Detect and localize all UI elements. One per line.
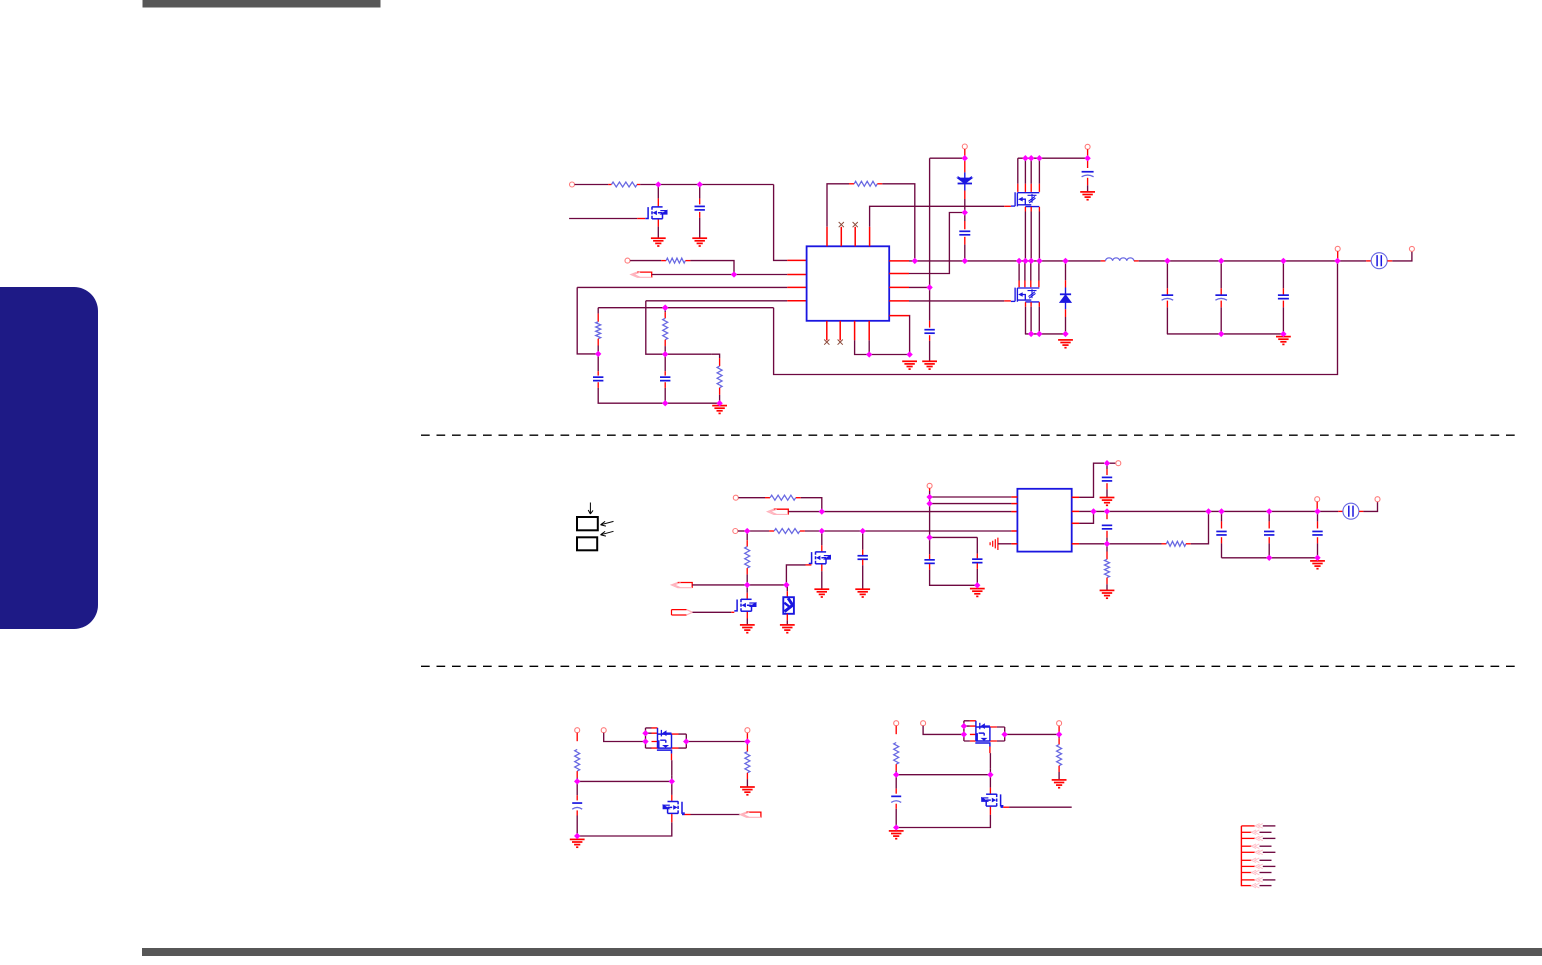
- resistor R11: [1105, 559, 1110, 577]
- transistor Q7: [668, 801, 685, 814]
- wire C4 to ground: [929, 341, 931, 361]
- chassis ground symbol: [990, 538, 998, 550]
- junction bus b: [1028, 258, 1034, 264]
- junction Cout3 gnd: [1280, 331, 1286, 337]
- lead F1 right: [1387, 260, 1392, 262]
- capacitor C14: [1216, 531, 1226, 535]
- net bundle connector J1: [1241, 824, 1275, 888]
- junction bus c: [1036, 258, 1042, 264]
- wire C14 bottom: [1221, 543, 1223, 557]
- capacitor C9: [858, 556, 868, 560]
- junction Cout1 top: [1164, 258, 1170, 264]
- pin U1 R5: [889, 315, 909, 317]
- junction C5 bus: [962, 258, 968, 264]
- wire junction to C2: [597, 354, 599, 371]
- wire D2 to rail: [1065, 317, 1067, 334]
- lead L1 left: [1101, 260, 1106, 262]
- ground below Q4: [814, 589, 829, 597]
- junction BL 3 node: [744, 738, 750, 744]
- terminal VOUT: [1409, 246, 1414, 251]
- wire into BM node: [989, 769, 991, 775]
- pin U1 L1: [787, 259, 806, 261]
- wire R1 to corner: [640, 184, 773, 186]
- wire Q3 source down: [1025, 307, 1027, 334]
- junction U1 ground: [906, 351, 912, 357]
- lead C5 bottom: [964, 237, 966, 245]
- wire F2 to terminal: [1363, 502, 1377, 512]
- wire C15 bottom: [1268, 543, 1270, 557]
- wire Q3 drain: [1024, 261, 1026, 281]
- junction U2 pin1 node: [926, 494, 932, 500]
- wire to C1: [699, 185, 701, 199]
- junction Q8 a: [961, 723, 967, 729]
- wire Q6 gate to Q7: [671, 760, 673, 776]
- resistor RBL2: [745, 752, 750, 773]
- wire Q8 gate to Q9: [989, 753, 991, 769]
- terminal BL 1: [575, 728, 580, 733]
- lead Q6 gate red: [671, 754, 673, 761]
- terminal VIN A: [962, 144, 967, 149]
- wire to U2 pin1: [930, 496, 1012, 498]
- lead R4 bottom: [597, 339, 599, 346]
- junction Q6 b: [642, 738, 648, 744]
- lead C12 top: [1106, 469, 1108, 475]
- lead Q3 gate: [1004, 300, 1011, 302]
- lead R8 right: [800, 530, 805, 532]
- lead C16 top: [1317, 521, 1319, 528]
- resistor RBM2: [1057, 745, 1062, 766]
- lead Q5 gate: [731, 611, 734, 613]
- wire R8 to U2 pin4: [805, 530, 1012, 532]
- ground BM 3: [1052, 780, 1067, 788]
- transistor Q1: [645, 206, 662, 219]
- wire VIN B rail: [1018, 157, 1088, 159]
- pin U2 R4: [1072, 543, 1079, 545]
- lead C5 top: [964, 221, 966, 229]
- lead R1 right: [637, 184, 640, 186]
- wire U1 top pin to R3: [827, 184, 849, 227]
- feedthrough F2: [1343, 503, 1359, 519]
- pin U1 R1: [889, 260, 909, 262]
- capacitor C11: [972, 559, 982, 563]
- junction D2 rail: [1062, 331, 1068, 337]
- lead R5 top: [664, 312, 666, 318]
- wire U2 R3 loop: [1079, 511, 1093, 523]
- junction Q2 drain4: [1036, 155, 1042, 161]
- resistor R5: [663, 318, 668, 339]
- capacitor C1: [695, 206, 705, 210]
- lead Cout2 top: [1220, 288, 1222, 295]
- lead R1 left: [608, 184, 611, 186]
- junction Q4 drain node: [819, 528, 825, 534]
- junction R4/C2 node: [595, 351, 601, 357]
- transistor Q6 P-FET: [646, 728, 687, 748]
- lead F2 left: [1338, 510, 1342, 512]
- feedthrough F1: [1371, 253, 1387, 269]
- wire R11 bottom: [1106, 584, 1108, 590]
- dashed section divider lower: [421, 665, 1521, 667]
- wire BL source return: [577, 822, 672, 836]
- capacitor Cout3: [1278, 295, 1289, 299]
- resistor RBL: [575, 749, 580, 771]
- net arrow ACOK: [631, 272, 652, 278]
- charger controller U1: [807, 246, 890, 320]
- wire R4 to junction: [597, 346, 599, 354]
- lead R7 left: [765, 497, 770, 499]
- diode D2: [1060, 294, 1071, 302]
- lead Q8 gate red: [989, 747, 991, 754]
- wire enable to U2 pin3: [822, 511, 1012, 513]
- lead RBL top: [576, 733, 578, 742]
- lead C14 top: [1221, 521, 1223, 528]
- wire Q2 drain2: [1024, 158, 1026, 184]
- lead C9 top: [862, 550, 864, 556]
- wire C10 loop top: [930, 536, 978, 538]
- wire U1 R4 to Q3 gate: [909, 300, 1004, 302]
- wire Q7 drain: [671, 781, 673, 795]
- wire mid input A: [738, 497, 765, 499]
- wire C16 bottom: [1317, 543, 1319, 557]
- wire CBM bottom: [895, 809, 897, 828]
- junction BM gate node: [893, 772, 899, 778]
- lead TVS top: [786, 591, 788, 597]
- wire BM 2 to Q8: [923, 726, 964, 735]
- wire C12 to ground: [1106, 489, 1108, 497]
- wire Cout3 top: [1282, 261, 1284, 288]
- lead sense stub: [1316, 502, 1318, 510]
- lead Q1 gate: [637, 218, 645, 220]
- resistor R4: [596, 322, 601, 339]
- lead L1 right: [1134, 260, 1139, 262]
- lead D2 blue top: [1065, 288, 1067, 295]
- wire Q2 source to bus: [1024, 212, 1026, 261]
- ground mid caps: [970, 589, 985, 597]
- wire gate node to TVS node: [747, 584, 786, 586]
- wire output to F1: [1338, 260, 1367, 262]
- wire RBM2 bottom: [1058, 772, 1060, 780]
- transistor Q3 low-side: [1011, 288, 1039, 302]
- wire D2 top: [1065, 261, 1067, 280]
- wire R5 to junction: [664, 346, 666, 354]
- pin U2 R2: [1072, 510, 1079, 512]
- wire Q4 drain: [821, 531, 823, 545]
- lead Q2 drain4 red: [1038, 184, 1040, 192]
- lead D1 anode: [964, 158, 966, 172]
- wire U1 pin3 feedback: [577, 286, 787, 288]
- lead Cout1 top: [1166, 288, 1168, 295]
- wire Cout2 bottom: [1220, 307, 1222, 334]
- lead Q1 drain: [657, 198, 659, 206]
- wire C10 to ground node: [930, 570, 978, 586]
- wire arrow to gate node: [692, 584, 747, 586]
- ground below R11: [1100, 590, 1115, 598]
- lead C9 bottom: [862, 559, 864, 565]
- lead D2 cathode: [1065, 280, 1067, 287]
- wire R2 to EN node: [690, 261, 734, 275]
- pin U1 L2: [787, 274, 806, 276]
- transistor Q2 high-side: [1011, 192, 1039, 206]
- junction EN node: [731, 271, 737, 277]
- capacitor C12: [1102, 477, 1112, 481]
- wire Q4 source to ground: [821, 571, 823, 589]
- wire Cout3 bottom: [1282, 307, 1284, 334]
- lead Q2 drain3 red: [1030, 184, 1032, 192]
- terminal BM 2: [921, 721, 926, 726]
- resistor R3: [854, 181, 877, 186]
- lead R4 top: [597, 314, 599, 322]
- wire Q2 drain4: [1038, 158, 1040, 184]
- wire Q2 drain3: [1030, 158, 1032, 184]
- lead C12 bottom: [1106, 483, 1108, 489]
- pin U1 B4: [868, 321, 870, 341]
- junction source rail a: [1028, 331, 1034, 337]
- transistor Q9: [986, 794, 1003, 807]
- lead CBM bottom: [895, 804, 897, 809]
- lead C11 top: [976, 554, 978, 559]
- junction gate drive node: [744, 582, 750, 588]
- lead Q3 source red: [1038, 302, 1040, 307]
- ground BL: [570, 839, 585, 847]
- wire U1 B4 down: [868, 340, 870, 354]
- lead Cout2 bottom: [1220, 301, 1222, 308]
- junction R5 top: [662, 305, 668, 311]
- lead C6 bottom: [1087, 178, 1089, 186]
- wire to Q1 drain: [657, 185, 659, 199]
- lead R10 right: [1186, 543, 1191, 545]
- no-connect X B1: [824, 340, 829, 345]
- capacitor Cout1: [1162, 295, 1174, 300]
- wire Q9 gate: [1009, 806, 1072, 808]
- lead CBL top: [576, 795, 578, 800]
- junction R10 output: [1205, 508, 1211, 514]
- ground mid output: [1310, 561, 1325, 569]
- wire Q7 gate: [691, 814, 741, 816]
- lead R5 bottom: [664, 340, 666, 346]
- lead C13 top: [1106, 511, 1108, 519]
- junction bus d: [1016, 258, 1022, 264]
- wire Q6 to BL 3: [686, 741, 747, 743]
- junction Q1 drain node: [655, 181, 661, 187]
- lead R2 right: [685, 260, 690, 262]
- ground below C12: [1100, 498, 1115, 506]
- lead Q5 drain: [746, 593, 748, 599]
- junction Q8 b: [961, 731, 967, 737]
- wire down to R4 node: [577, 287, 596, 354]
- pin U1 T1: [826, 227, 828, 247]
- pin U1 B3: [854, 321, 856, 341]
- wire Q3 drain1: [1018, 261, 1020, 281]
- junction R2/R3: [1090, 508, 1096, 514]
- resistor R6: [717, 366, 722, 388]
- junction Q6 c: [683, 738, 689, 744]
- wire vcc vertical: [929, 158, 931, 321]
- lead F2 right: [1359, 510, 1363, 512]
- pin U2 R3: [1072, 522, 1079, 524]
- wire Cout1 bottom: [1166, 307, 1168, 334]
- lead C4 bottom: [929, 335, 931, 341]
- ground below C9: [855, 589, 870, 597]
- lead Q4 source: [821, 565, 823, 572]
- junction BM fet column: [987, 772, 993, 778]
- wire C12 top: [1106, 463, 1108, 469]
- junction boot node: [962, 209, 968, 215]
- wire Q2 drain1: [1017, 158, 1019, 184]
- terminal VDDP: [1116, 461, 1121, 466]
- transistor Q5: [734, 599, 751, 612]
- wire C3 to rail: [664, 388, 666, 403]
- junction TVS node: [783, 582, 789, 588]
- junction VIN node: [962, 155, 968, 161]
- ground BM: [889, 831, 904, 839]
- wire R9 top: [746, 531, 748, 540]
- lead D1 cathode: [964, 191, 966, 200]
- wire C15 top: [1268, 511, 1270, 521]
- inductor L1: [1106, 258, 1134, 261]
- wire to R8: [747, 530, 769, 532]
- lead Q3 drain red: [1030, 281, 1032, 288]
- terminal middle input A: [733, 495, 738, 500]
- lead R8 left: [769, 530, 774, 532]
- lead Q5 source: [746, 612, 748, 619]
- junction output rail: [1218, 331, 1224, 337]
- junction Q6 a: [642, 730, 648, 736]
- bottom footer bar: [142, 948, 1542, 956]
- junction BM 3 node: [1056, 731, 1062, 737]
- pin U1 T3 (NC): [854, 227, 856, 247]
- net arrow gate drive: [671, 583, 692, 589]
- junction R5/C3 node: [662, 351, 668, 357]
- ground below Q5: [740, 625, 755, 633]
- pin U1 B1 (NC): [826, 321, 828, 341]
- lead VIN B stub: [1087, 149, 1089, 158]
- wire Q4 gate loop: [786, 565, 805, 585]
- lead C2 top: [597, 371, 599, 375]
- wire C11 bottom: [976, 569, 978, 585]
- lead Q7 drain: [671, 795, 673, 801]
- TVS diode D3: [783, 597, 794, 614]
- junction BL gate node: [574, 778, 580, 784]
- wire into BL node: [671, 776, 673, 782]
- wire boot to C5: [964, 213, 966, 222]
- lead RBM2 top: [1058, 738, 1060, 744]
- wire R4 top: [597, 308, 599, 314]
- lead Cout1 bottom: [1166, 301, 1168, 308]
- lead CBL bottom: [576, 810, 578, 815]
- pin U2 L1: [1011, 496, 1017, 498]
- wire vcc top horizontal: [930, 157, 963, 159]
- lead Q7 gate red: [685, 814, 691, 816]
- junction Cout2 top: [1218, 258, 1224, 264]
- wire Q3 drain: [1038, 261, 1040, 281]
- lead Q2 drain2 red: [1024, 184, 1026, 192]
- lead CBM top: [895, 789, 897, 794]
- lead C16 bottom: [1317, 537, 1319, 543]
- lead C15 top: [1268, 521, 1270, 528]
- lead mid VCC stub: [929, 488, 931, 491]
- pin U1 B2 (NC): [839, 321, 841, 341]
- lead R10 left: [1162, 543, 1167, 545]
- wire U1 pin4: [646, 300, 788, 302]
- junction C10 loop: [926, 534, 932, 540]
- wire R10 up to output: [1191, 511, 1209, 543]
- resistor R10: [1166, 541, 1186, 546]
- no-connect X T3: [853, 222, 858, 227]
- pin U1 T2 (NC): [840, 227, 842, 247]
- lead Q9 gate red: [1003, 806, 1009, 808]
- lead R9 top: [746, 540, 748, 546]
- pin U1 R3pin: [889, 286, 909, 288]
- capacitor CBL: [572, 803, 582, 809]
- lead D1 blue top: [964, 172, 966, 178]
- capacitor C10: [924, 560, 934, 564]
- capacitor C16: [1312, 531, 1322, 535]
- junction BL fet column: [669, 778, 675, 784]
- wire U1 R3 to Cboot: [909, 286, 930, 288]
- connector block symbol: [577, 517, 598, 550]
- junction C1 node: [697, 181, 703, 187]
- lead R2 left: [661, 260, 666, 262]
- wire R6 to ground node: [719, 395, 721, 403]
- lead Q3 source red: [1025, 302, 1027, 307]
- top header bar: [143, 0, 381, 8]
- junction ground node: [716, 400, 722, 406]
- wire U2 R1 up: [1079, 463, 1104, 497]
- wire to Q5 gate: [693, 611, 732, 613]
- junction U2 pin2 node: [926, 500, 932, 506]
- lead R7 right: [796, 497, 801, 499]
- junction C14 top: [1218, 508, 1224, 514]
- capacitor C4: [924, 330, 934, 334]
- junction Q8 c: [1001, 731, 1007, 737]
- wire C11 top: [976, 537, 978, 553]
- wire Cout1 top: [1166, 261, 1168, 288]
- lead BM 3 stub: [1058, 726, 1060, 735]
- ground below TVS: [780, 625, 795, 633]
- junction D2 bus: [1062, 258, 1068, 264]
- wire RBL2 top: [746, 742, 748, 746]
- lead C3 bottom: [664, 382, 666, 388]
- wire C9 top: [862, 531, 864, 550]
- wire EN to U1 pin2: [734, 274, 787, 276]
- wire U1 B3 ground loop: [855, 340, 910, 354]
- ground below C1: [692, 238, 707, 246]
- lead RBL2 bottom: [746, 773, 748, 779]
- wire R11 top: [1106, 544, 1108, 552]
- capacitor C6: [1082, 172, 1094, 177]
- wire Q9 drain: [989, 775, 991, 788]
- capacitor CBM: [891, 796, 901, 802]
- junction B4 gnd row: [866, 351, 872, 357]
- lead Q2 drain1: [1017, 184, 1019, 192]
- wire BL 2 to Q6: [604, 733, 646, 742]
- pin U2 L2: [1011, 503, 1017, 505]
- terminal VOUT sense: [1335, 246, 1340, 251]
- wire CBM top: [895, 775, 897, 789]
- lead Q9 gate foot: [1001, 806, 1004, 808]
- wire BM source return: [896, 815, 990, 828]
- lead C4 top: [929, 321, 931, 328]
- terminal BM 1: [894, 721, 899, 726]
- junction mid ground: [974, 582, 980, 588]
- wire junction to C3: [664, 354, 666, 371]
- pin U1 R2: [889, 273, 909, 275]
- wire U1 T4 to Q2 gate: [870, 206, 1005, 227]
- lead D2 anode: [1065, 309, 1067, 317]
- wire RBL2 bottom: [746, 779, 748, 787]
- wire rail to ground node: [665, 402, 719, 404]
- ground U1 pad: [902, 361, 917, 369]
- lead RBM bottom: [895, 764, 897, 771]
